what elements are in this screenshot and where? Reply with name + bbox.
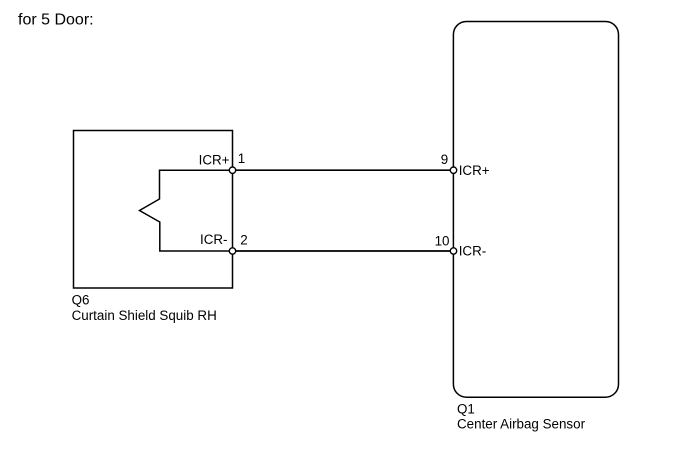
svg-text:ICR+: ICR+ — [459, 163, 490, 178]
pin 1 terminal circle — [229, 167, 235, 173]
svg-text:10: 10 — [435, 234, 450, 249]
svg-text:Curtain Shield Squib RH: Curtain Shield Squib RH — [72, 308, 217, 323]
svg-text:1: 1 — [238, 151, 245, 166]
connector Q1 outline (Center Airbag Sensor box) — [453, 22, 618, 398]
svg-text:2: 2 — [240, 233, 247, 248]
pin 10 terminal circle — [450, 248, 456, 254]
squib element inside Q6 (chevron igniter symbol) — [140, 170, 233, 251]
pin 9 terminal circle — [450, 167, 456, 173]
svg-text:ICR+: ICR+ — [199, 152, 230, 167]
svg-text:ICR-: ICR- — [200, 232, 228, 247]
connector Q6 outline (Curtain Shield Squib RH box) — [74, 131, 233, 289]
svg-text:9: 9 — [441, 152, 448, 167]
pin 2 terminal circle — [229, 248, 235, 254]
svg-text:ICR-: ICR- — [459, 243, 487, 258]
svg-text:Q1: Q1 — [457, 402, 475, 417]
wire ICR+ net (pin 1 to pin 9) — [233, 169, 454, 171]
svg-text:Q6: Q6 — [72, 292, 90, 307]
svg-text:Center Airbag Sensor: Center Airbag Sensor — [457, 416, 586, 431]
wire ICR- net (pin 2 to pin 10) — [233, 250, 454, 252]
svg-text:for 5 Door:: for 5 Door: — [18, 12, 94, 29]
